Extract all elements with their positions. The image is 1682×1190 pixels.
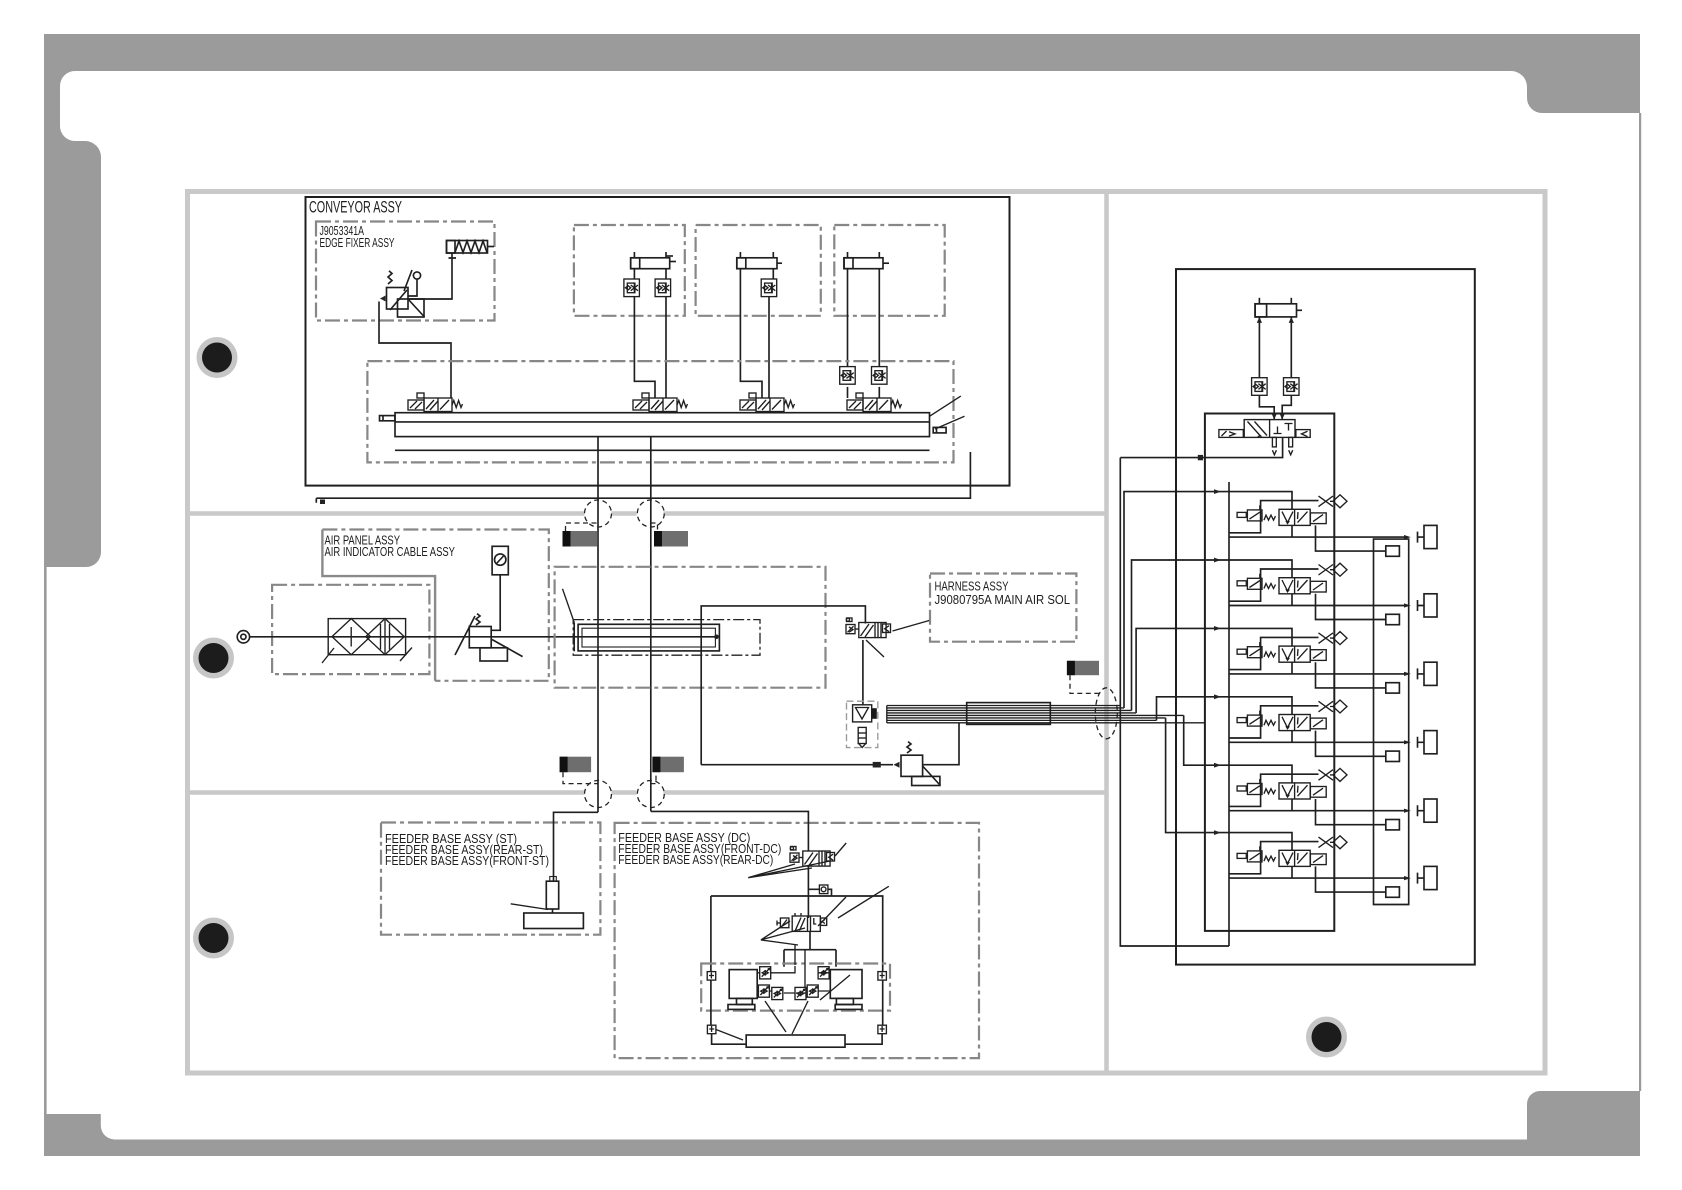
outer frame — [188, 192, 1546, 1074]
left fitting — [707, 972, 716, 981]
wire: regulator supply down and to valve — [379, 302, 451, 399]
leader to cylinder — [563, 589, 575, 623]
wires cylinder1 to valves — [634, 269, 655, 398]
cylinder port wires — [1259, 317, 1291, 378]
leader valve to harness box — [893, 621, 930, 632]
cylinder dash-dot box 1 — [574, 225, 685, 316]
bottom-left block and bottom band — [44, 1114, 1527, 1156]
wire cylinder port to main air valve — [701, 606, 865, 765]
right thin edge line — [1639, 113, 1641, 1091]
HARNESS ASSY dash-dot box — [930, 574, 1076, 642]
leader to cylinder — [716, 1030, 743, 1041]
edge fixer regulator — [380, 270, 425, 317]
valve row 2 — [1205, 489, 1437, 556]
left tab bar — [44, 71, 101, 567]
right fitting — [878, 972, 887, 981]
right bottom fitting — [878, 1025, 887, 1034]
wire regulator to harness — [923, 723, 959, 765]
dashed stub connector C — [1070, 675, 1101, 693]
cylinder 1 — [631, 252, 676, 269]
row4 input bus — [1136, 628, 1205, 713]
dashed stubs to circles pair2 — [563, 772, 656, 783]
svg-text:FEEDER BASE ASSY(REAR-DC): FEEDER BASE ASSY(REAR-DC) — [618, 853, 773, 867]
leader lines right — [930, 396, 965, 429]
FEEDER BASE ASSY (DC) dash-dot box — [615, 823, 979, 1058]
bullet section2 — [193, 638, 234, 679]
cylinder dash-dot box 3 — [834, 225, 944, 316]
top gray band — [44, 34, 1640, 113]
svg-text:CONVEYOR ASSY: CONVEYOR ASSY — [309, 198, 402, 217]
left bottom fitting — [707, 1025, 716, 1034]
top-left inner corner fillet — [60, 71, 75, 86]
connector block C — [1067, 661, 1099, 675]
DC solenoid valve 2 — [777, 913, 827, 931]
row3 input bus — [1132, 560, 1206, 710]
connector circle A (divider 1) — [585, 500, 612, 527]
FEEDER BASE ASSY (ST) dash-dot box — [381, 823, 600, 935]
connector wire A down — [597, 437, 599, 813]
speed controller R1 — [1252, 378, 1268, 396]
air inlet — [237, 631, 249, 643]
dashed stubs to circles pair1 — [566, 523, 658, 531]
supply line tick — [1198, 455, 1203, 460]
connector circle B (divider 1) — [637, 500, 664, 527]
harness ribbon 8 lines — [887, 706, 1206, 723]
connector block A2 — [560, 757, 592, 773]
inline fitting (check) — [808, 885, 831, 896]
main air solenoid valve — [846, 618, 891, 638]
speed controller 2 — [761, 279, 777, 297]
big manifold dash-dot box — [367, 361, 953, 462]
divider 1 — [188, 511, 1107, 516]
leader fan point 1 — [748, 843, 846, 878]
line end dot — [714, 635, 719, 640]
DC solenoid valve 1 — [790, 847, 835, 867]
wires cylinder3 down — [847, 269, 849, 398]
CONVEYOR ASSY outer box — [306, 197, 1010, 486]
speed controller 1a — [624, 279, 640, 297]
check valve + muffler assembly — [847, 701, 878, 747]
right plug — [933, 427, 946, 433]
filter dash-dot box — [272, 585, 429, 674]
solenoid valve SV2 — [633, 393, 688, 412]
speed controller 3b — [872, 367, 888, 385]
cylinder dash-dot rect — [573, 620, 760, 656]
speed controller 1b — [655, 279, 671, 297]
wire to lower regulator — [701, 764, 893, 766]
valve row 6 — [1205, 763, 1437, 830]
wires to bottom cylinder — [711, 980, 883, 1044]
jog wires to supply valve — [1259, 395, 1291, 419]
solenoid valve SV4 — [847, 393, 902, 412]
wire circle A2 to ST actuator — [554, 812, 599, 881]
inner dash-dot box feeders — [701, 964, 890, 1011]
outer enclosure rect — [1176, 269, 1475, 965]
divider 2 — [188, 790, 1107, 795]
svg-text:J9080795A MAIN AIR SOL: J9080795A MAIN AIR SOL — [935, 593, 1071, 607]
supply bus vertical — [1120, 458, 1229, 946]
harness pass ellipse — [1095, 688, 1117, 739]
conveyor cylinder — [574, 622, 719, 651]
AIR PANEL ASSY label box (L-shaped dash-dot) — [322, 530, 548, 681]
inline connector tick — [873, 762, 881, 768]
speed controllers left cluster — [760, 967, 771, 979]
solenoid valve SV3 — [740, 393, 795, 412]
left feeder block — [728, 970, 757, 1010]
connector circle A2 (divider 2) — [585, 781, 612, 808]
wires cylinder2 to valves — [740, 269, 762, 398]
row5 input bus — [1157, 697, 1206, 721]
EDGE FIXER ASSY dash-dot box — [316, 222, 495, 321]
exhaust mufflers — [1272, 437, 1292, 454]
solenoid valve SV1 — [408, 393, 463, 412]
harness sleeve — [967, 703, 1051, 725]
speed controller R2 — [1284, 378, 1300, 396]
row2 input bus — [1124, 492, 1205, 708]
svg-text:FEEDER BASE ASSY(FRONT-ST): FEEDER BASE ASSY(FRONT-ST) — [385, 854, 549, 868]
cylinder 3 — [844, 252, 889, 269]
wire valve1 down — [807, 867, 809, 919]
bullet section1 — [197, 337, 238, 378]
supply line — [1120, 437, 1282, 457]
tick at left wire end — [320, 500, 325, 505]
work port bus A — [1374, 539, 1409, 904]
connector block A1 — [563, 531, 598, 547]
bullet right section — [1306, 1017, 1347, 1058]
ST actuator nozzle — [511, 877, 584, 929]
filter/dryer unit — [322, 619, 412, 663]
valve row 3 — [1205, 558, 1437, 625]
svg-text:HARNESS ASSY: HARNESS ASSY — [935, 580, 1009, 594]
connector block B1 — [654, 531, 688, 547]
wire circle B2 to DC valve 1 — [651, 811, 809, 851]
valve row 4 — [1205, 626, 1437, 693]
lifter cylinder — [1255, 298, 1302, 317]
supply valve — [1219, 420, 1310, 438]
vertical divider — [1104, 192, 1109, 1074]
valve row 5 — [1205, 694, 1437, 761]
distribution line — [711, 896, 883, 972]
connector circle B2 (divider 2) — [637, 781, 664, 808]
main air line — [250, 636, 717, 638]
bullet section3 — [193, 918, 234, 959]
leaders below cluster — [765, 975, 850, 1034]
bottom cylinder — [746, 1035, 845, 1047]
svg-text:AIR INDICATOR CABLE ASSY: AIR INDICATOR CABLE ASSY — [325, 545, 456, 559]
left thin edge line — [44, 567, 47, 1114]
wire to right edge — [316, 452, 970, 503]
valve port arrows — [1272, 414, 1285, 420]
leader under valve — [866, 640, 884, 657]
big dash-dot box (conveyor cylinder) — [555, 567, 826, 688]
manifold block box — [1205, 414, 1334, 931]
wire valve2 down with split — [784, 931, 836, 966]
row7 input bus — [1166, 718, 1206, 833]
wire valve to check valve — [862, 640, 864, 705]
speed controller 3a — [840, 367, 856, 385]
left plug — [380, 416, 396, 421]
manifold tube — [395, 413, 930, 451]
bottom-right block — [1527, 1091, 1640, 1156]
right feeder block — [830, 970, 862, 1010]
speed controllers right cluster — [818, 967, 829, 979]
cylinder dash-dot box 2 — [696, 225, 821, 316]
cylinder 2 — [737, 252, 782, 269]
connector wire B down — [650, 437, 652, 812]
lower regulator — [894, 742, 941, 786]
valve row 7 — [1205, 830, 1437, 897]
wire: cylinder port down to regulator — [408, 258, 452, 299]
svg-text:EDGE FIXER ASSY: EDGE FIXER ASSY — [320, 236, 395, 250]
row6 input bus — [1184, 715, 1206, 765]
panel regulator — [455, 546, 523, 661]
connector block B2 — [652, 757, 684, 773]
leader fan point 2 — [761, 886, 889, 945]
edge fixer spring-return cylinder — [447, 241, 495, 259]
port arrows — [1257, 317, 1294, 323]
cluster connection wires — [757, 945, 830, 993]
